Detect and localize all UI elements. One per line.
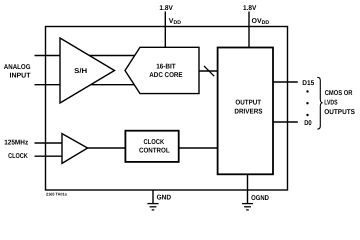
- label 16-BIT ADC CORE: [149, 64, 183, 80]
- op-amp S/H sample-and-hold: [60, 38, 115, 103]
- svg-text:125MHz: 125MHz: [4, 139, 28, 146]
- label CMOS OR LVDS OUTPUTS: [324, 90, 355, 116]
- wire: analog input +: [35, 55, 135, 57]
- svg-text:S/H: S/H: [74, 67, 87, 75]
- svg-text:D15: D15: [302, 80, 314, 87]
- svg-text:OUTPUTS: OUTPUTS: [324, 109, 355, 116]
- svg-text:CLOCK: CLOCK: [8, 153, 28, 160]
- svg-text:OUTPUT: OUTPUT: [235, 100, 261, 107]
- label ANALOG INPUT: [4, 64, 31, 79]
- 16-bit ADC core block: [125, 47, 199, 93]
- svg-text:16-BIT: 16-BIT: [156, 64, 176, 71]
- ground symbol GND: [147, 204, 158, 210]
- wire: OGND pin: [247, 174, 249, 203]
- svg-text:ANALOG: ANALOG: [4, 64, 31, 71]
- svg-text:2165 TA01a: 2165 TA01a: [46, 191, 67, 196]
- clock control block: [125, 131, 178, 162]
- svg-text:INPUT: INPUT: [10, 73, 32, 80]
- wire: analog input -: [35, 84, 135, 86]
- label OUTPUT DRIVERS: [234, 100, 262, 116]
- svg-text:CMOS OR: CMOS OR: [325, 90, 353, 97]
- svg-text:DRIVERS: DRIVERS: [234, 108, 262, 115]
- curly brace for output group: [317, 77, 322, 129]
- svg-text:1.8V: 1.8V: [243, 5, 257, 12]
- clock buffer amp: [62, 134, 88, 164]
- output drivers block: [218, 48, 273, 175]
- ground symbol OGND: [242, 204, 253, 210]
- wire: clock buffer to clock control: [88, 147, 126, 149]
- wire: 125MHz clock input: [35, 142, 63, 144]
- label CLOCK CONTROL: [139, 139, 170, 155]
- svg-text:OGND: OGND: [251, 195, 269, 202]
- svg-text:CONTROL: CONTROL: [139, 148, 170, 155]
- svg-text:1.8V: 1.8V: [159, 5, 173, 12]
- wire: VDD supply pin: [164, 12, 166, 48]
- svg-text:D0: D0: [304, 120, 312, 127]
- svg-text:ADC CORE: ADC CORE: [149, 72, 183, 79]
- outer chip boundary: [46, 27, 288, 191]
- svg-text:CLOCK: CLOCK: [144, 139, 165, 146]
- bus wire: ADC core to output drivers: [199, 70, 218, 72]
- wire: clock control to output drivers: [179, 147, 218, 149]
- ellipsis dots between D15 and D0: [306, 90, 308, 116]
- svg-text:LVDS: LVDS: [324, 99, 338, 106]
- wire: D15 output stub: [273, 81, 298, 83]
- wire: OVDD supply pin: [248, 12, 250, 48]
- wire: CLOCK input: [35, 155, 63, 157]
- bus-width slash: [204, 66, 214, 76]
- wire: GND pin: [152, 190, 154, 203]
- svg-text:GND: GND: [157, 195, 172, 202]
- wire: D0 output stub: [273, 121, 298, 123]
